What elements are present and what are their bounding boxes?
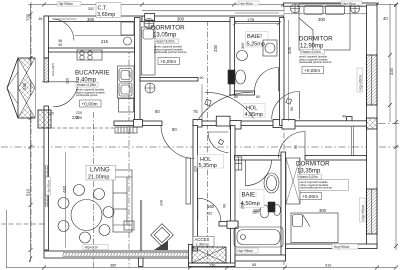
acces steps hatch [192, 247, 226, 263]
svg-text:DORMITOR: DORMITOR [296, 161, 330, 168]
door baie [244, 160, 246, 186]
lamp symbol kitchen [145, 83, 155, 93]
kitchen sink 1 [119, 69, 132, 82]
pillow dormitor2 a [304, 6, 323, 15]
svg-text:3,65mp: 3,65mp [97, 12, 115, 18]
svg-text:C.T.: C.T. [98, 6, 108, 12]
closet partition dorm3 [352, 127, 354, 156]
wall living/hol V3 [193, 126, 198, 252]
door dormitor2 [299, 92, 301, 120]
wall hol/baie V4 [231, 126, 236, 267]
svg-text:pardoseala parchet laminat: pardoseala parchet laminat [154, 50, 187, 54]
svg-text:220: 220 [76, 111, 82, 115]
svg-text:385: 385 [110, 264, 116, 268]
label HOL4 [244, 104, 266, 119]
svg-text:310: 310 [325, 264, 331, 268]
chair 4 [103, 207, 114, 218]
fridge [119, 99, 134, 113]
parapet box bottom living [83, 245, 108, 250]
door acces entry [197, 198, 199, 221]
svg-text:55: 55 [252, 263, 256, 267]
chair 3 [58, 198, 69, 209]
wall baiei right [280, 18, 285, 126]
door baiei [278, 68, 280, 92]
svg-text:210: 210 [66, 78, 70, 84]
chimney hatched block [18, 58, 35, 118]
dimension line right [395, 5, 397, 251]
door kitchen-left [42, 81, 78, 83]
label DORMITOR3 [296, 161, 349, 201]
chair 2 [94, 189, 105, 200]
svg-text:80: 80 [256, 95, 260, 99]
svg-text:Hcam=3,00m: Hcam=3,00m [302, 50, 321, 54]
svg-text:300: 300 [319, 208, 327, 213]
wall acces top stub [219, 222, 238, 227]
axis line horizontal right [284, 123, 399, 125]
svg-text:440: 440 [62, 185, 67, 193]
svg-text:80: 80 [155, 109, 160, 114]
label DORMITOR1 [151, 25, 187, 66]
blanket fold dormitor2 [299, 18, 313, 50]
right wall junction block [367, 118, 378, 129]
svg-text:BAIE!: BAIE! [247, 34, 262, 40]
svg-text:48: 48 [39, 17, 43, 21]
wall junction block MW-4 [273, 120, 284, 128]
svg-text:Hcp+96cm: Hcp+96cm [238, 249, 254, 253]
living corner step wedge [154, 241, 168, 251]
wall acces left [189, 245, 193, 267]
svg-text:130: 130 [209, 264, 215, 268]
label HOL5 [198, 155, 224, 170]
kitchen shelf line [75, 35, 135, 37]
lamp symbol dormitor2 a [291, 4, 300, 13]
wall junction block MW-1 [134, 120, 143, 128]
coffee table [124, 221, 134, 230]
dim chain baiei right [288, 20, 290, 121]
wall corridor right (MW extension) [284, 121, 367, 126]
right wall window hatch upper [367, 55, 378, 105]
svg-text:160: 160 [207, 204, 215, 209]
switch diamond hol4 left [205, 99, 211, 105]
wall middle horizontal (MW) left part [114, 121, 162, 126]
svg-text:245: 245 [22, 82, 27, 90]
svg-text:13,05mp: 13,05mp [153, 33, 177, 39]
rotated parapet box right lower [360, 198, 366, 222]
label DORMITOR2 [299, 36, 333, 75]
label BUCATARIE [75, 70, 110, 108]
svg-text:5,25mp: 5,25mp [247, 42, 265, 48]
label C.T. [96, 3, 121, 18]
svg-text:90: 90 [294, 145, 298, 149]
svg-text:178: 178 [247, 18, 255, 23]
wall middle horizontal (MW) right part [230, 121, 284, 126]
svg-text:150: 150 [252, 211, 258, 215]
svg-text:Hip+90cm: Hip+90cm [47, 179, 51, 193]
axis line vertical C [207, 20, 209, 268]
dormitor1 window niche [145, 14, 155, 21]
svg-text:DORMITOR: DORMITOR [151, 25, 185, 32]
label BAIEI [246, 32, 269, 48]
switch diamond hol4 right [286, 98, 292, 104]
chimney flue triangle [7, 58, 18, 118]
parapet box bottom right [332, 244, 358, 249]
wall middle horizontal (MW) centre part [193, 121, 216, 126]
door hol4 swing curve [205, 92, 254, 118]
living pillar bottom [139, 258, 144, 267]
washbasin baie small [274, 205, 281, 216]
svg-text:HOL: HOL [246, 106, 257, 112]
svg-text:DORMITOR: DORMITOR [299, 36, 333, 43]
svg-text:+0,00m: +0,00m [160, 59, 176, 65]
svg-text:BUCATARIE: BUCATARIE [75, 70, 110, 77]
wall bottom-right (dorm3 window wall) [286, 244, 378, 249]
radiator baie left [235, 157, 242, 170]
svg-text:Hcam=3,00m: Hcam=3,00m [156, 40, 175, 44]
svg-text:Hcam=3,00m: Hcam=3,00m [299, 175, 318, 179]
svg-text:+0,00m: +0,00m [304, 68, 320, 74]
svg-text:90: 90 [290, 107, 294, 111]
dorm2 headboard line [284, 13, 367, 15]
svg-text:pardoseala parchet laminat: pardoseala parchet laminat [299, 60, 332, 64]
radiator living (MW) [115, 127, 137, 133]
label ACCES [193, 237, 214, 247]
svg-text:240: 240 [160, 200, 164, 206]
svg-text:225: 225 [76, 116, 82, 120]
dim chain living left [65, 152, 67, 248]
wall acces junction block [227, 221, 238, 228]
svg-text:215: 215 [101, 39, 109, 44]
living low partition [140, 200, 142, 251]
svg-text:Hcp+90cm: Hcp+90cm [359, 75, 363, 91]
svg-text:230: 230 [213, 44, 218, 52]
lamp symbol dormitor1 [144, 19, 154, 29]
toilet baiei [236, 70, 246, 84]
svg-text:Hip+90cm: Hip+90cm [343, 2, 357, 6]
dimension line bottom [7, 267, 397, 269]
svg-text:80: 80 [59, 43, 63, 47]
rotated parapet box left living window [46, 177, 51, 195]
wall kitchen right (IW1) [135, 18, 141, 122]
wall dormitor1 bottom [140, 78, 198, 82]
washbasin baiei [237, 51, 248, 61]
baiei window sill lines [235, 12, 279, 14]
wall baie right V5 [281, 152, 286, 259]
chair 1 [74, 185, 85, 196]
door living to hol5 [161, 125, 195, 159]
svg-text:510: 510 [26, 188, 31, 196]
dining table [71, 200, 102, 231]
kitchen counter [118, 66, 135, 98]
radiator living [186, 158, 191, 204]
svg-text:302: 302 [88, 7, 94, 11]
wall junction block MW-2 [193, 120, 202, 128]
axis line horizontal mid-left [1, 146, 399, 148]
parapet box top 3 [341, 1, 362, 6]
door dormitor3 [304, 132, 306, 159]
pillow dormitor2 b [326, 6, 345, 15]
svg-text:300: 300 [318, 17, 326, 22]
svg-text:90: 90 [200, 76, 204, 80]
svg-text:+0,00m: +0,00m [302, 194, 318, 200]
label BAIE [240, 190, 264, 208]
svg-text:+0,00m: +0,00m [82, 102, 98, 108]
lamp symbol dormitor2 b [351, 4, 360, 13]
wall right outer [367, 5, 378, 248]
dim chain hol left [201, 84, 203, 120]
svg-text:300: 300 [241, 43, 245, 49]
axis line vertical A [30, 2, 32, 248]
wall block corridor left [282, 120, 295, 129]
armchair diagonal [151, 224, 174, 247]
svg-text:LIVING: LIVING [90, 168, 110, 174]
stove [77, 50, 102, 60]
svg-text:80: 80 [234, 95, 238, 99]
svg-text:40: 40 [342, 115, 346, 119]
svg-text:Hcp+90cm: Hcp+90cm [361, 205, 365, 221]
chair 5 [58, 221, 69, 232]
svg-text:162: 162 [206, 212, 212, 216]
door dormitor1 swing curve [198, 92, 254, 120]
wall acces bottom [189, 263, 236, 267]
svg-text:365: 365 [87, 17, 95, 22]
wall baie bottom [235, 255, 286, 261]
svg-text:pardoseala gresie: pardoseala gresie [76, 93, 98, 97]
svg-text:Hcam=3,05m: Hcam=3,05m [77, 83, 96, 87]
bed dormitor2 [299, 4, 350, 50]
bathtub [234, 227, 283, 247]
svg-text:5,35mp: 5,35mp [199, 163, 217, 169]
svg-text:Hcp+90cm: Hcp+90cm [334, 245, 350, 249]
wall top-middle [142, 16, 284, 22]
svg-text:21,00mp: 21,00mp [88, 175, 109, 181]
boiler C.T. [121, 22, 134, 35]
svg-text:Hip+0cm: Hip+0cm [85, 246, 98, 250]
wall baiei bottom [235, 91, 255, 95]
svg-text:pardoseala parchet laminat: pardoseala parchet laminat [300, 186, 333, 190]
door hol5 leaf [208, 131, 228, 133]
right wall window hatch lower [367, 189, 378, 234]
left wall window (living) [45, 165, 47, 207]
svg-text:1,30mp: 1,30mp [196, 242, 210, 247]
svg-text:12,90mp: 12,90mp [300, 44, 324, 50]
svg-text:320: 320 [389, 67, 394, 75]
dimension line left [30, 5, 32, 263]
axis line vertical kitchen [93, 112, 95, 268]
svg-text:Hcp+90,5: Hcp+90,5 [51, 63, 55, 76]
kitchen sink 2 [119, 83, 132, 96]
wall baiei left [230, 18, 235, 96]
kitchen open boundary dashed [51, 127, 114, 129]
svg-text:Hip+90cm: Hip+90cm [240, 2, 254, 6]
svg-text:13,35mp: 13,35mp [297, 169, 321, 175]
pillow dormitor3 [293, 215, 303, 227]
sofa [113, 170, 132, 232]
wall top-right (dormitor 12,90 window wall) [284, 3, 378, 6]
wall baie top [235, 156, 282, 161]
wardrobe dormitor3 [286, 158, 300, 204]
washing machine baiei [263, 40, 277, 56]
wall block corridor small [347, 117, 353, 122]
svg-text:300: 300 [177, 17, 185, 22]
door C.T. top [53, 18, 77, 20]
svg-text:720: 720 [26, 13, 31, 21]
axis line vertical D [283, 6, 285, 268]
wall junction block MW-3 [230, 121, 241, 130]
door swing diamond hol5 [218, 139, 223, 144]
wall top-left (C.T.) [44, 16, 142, 22]
parapet box bathtub [236, 248, 258, 253]
svg-text:75: 75 [193, 109, 198, 114]
wall block hol5 door [216, 116, 230, 126]
axis stub bottom-left [1, 223, 44, 225]
axis line vertical B [128, 48, 130, 268]
svg-text:320: 320 [194, 166, 198, 172]
parapet box top 1 [57, 2, 81, 7]
label LIVING [86, 166, 116, 181]
wall kitchen top (IW2) [49, 48, 135, 52]
toilet baie [260, 205, 269, 218]
chair 7 [99, 225, 110, 236]
svg-text:40: 40 [383, 16, 388, 21]
wall bottom (living window wall) [44, 251, 190, 258]
chair 6 [80, 232, 91, 243]
left wall junction block [38, 110, 51, 128]
svg-text:Hip+90cm: Hip+90cm [59, 2, 74, 6]
cistern baiei (black) [228, 70, 235, 84]
sink pedestal baie [264, 173, 279, 193]
svg-text:4,05mp: 4,05mp [245, 112, 263, 118]
bed dormitor1 [142, 27, 156, 75]
svg-text:90: 90 [223, 204, 227, 208]
parapet box top 2 [238, 1, 259, 6]
wall left upper [44, 16, 49, 58]
wall dorm3 top right part [305, 156, 367, 161]
svg-text:(90): (90) [241, 203, 245, 209]
svg-text:90: 90 [172, 127, 177, 132]
bed dormitor3 [291, 213, 338, 243]
svg-text:205: 205 [287, 46, 292, 54]
dimension line top [28, 4, 397, 6]
pillow dormitor1 [143, 29, 154, 39]
rotated parapet box right upper [46, 68, 366, 222]
svg-text:BAIE:: BAIE: [242, 193, 258, 199]
svg-text:120: 120 [48, 112, 54, 116]
